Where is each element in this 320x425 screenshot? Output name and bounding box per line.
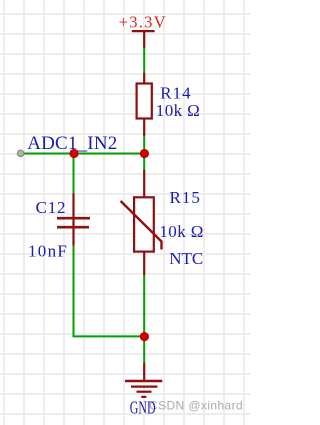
svg-text:CSDN @xinhard: CSDN @xinhard bbox=[149, 399, 243, 413]
svg-text:10k Ω: 10k Ω bbox=[156, 101, 200, 120]
svg-text:10k Ω: 10k Ω bbox=[159, 222, 203, 241]
svg-text:C12: C12 bbox=[36, 198, 67, 217]
svg-text:R14: R14 bbox=[160, 83, 191, 102]
svg-text:GND: GND bbox=[130, 400, 156, 419]
svg-text:+3.3V: +3.3V bbox=[119, 13, 167, 32]
svg-text:R15: R15 bbox=[170, 188, 201, 207]
svg-text:10nF: 10nF bbox=[28, 242, 68, 261]
svg-text:NTC: NTC bbox=[169, 249, 203, 268]
svg-text:ADC1_IN2: ADC1_IN2 bbox=[27, 133, 117, 154]
